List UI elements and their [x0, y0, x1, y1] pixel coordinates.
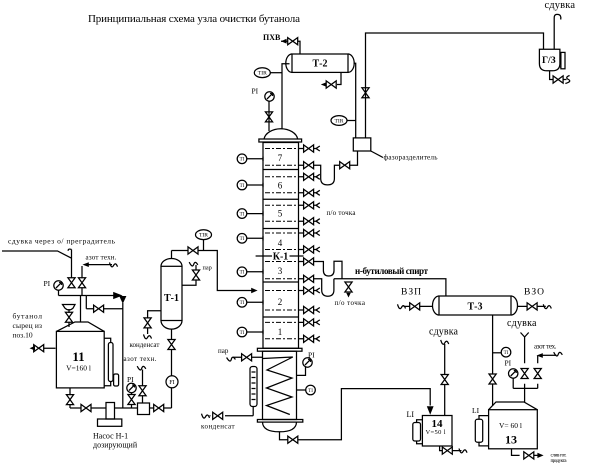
valve G/Z drain — [553, 76, 563, 83]
instrument TI 4 — [237, 234, 247, 244]
valve PXB — [288, 38, 298, 45]
reboiler bottom flange — [257, 420, 302, 423]
heat exchanger T-3 — [439, 296, 511, 315]
wire TI stem — [297, 389, 306, 391]
valve row11 — [304, 287, 314, 294]
svg-text:PI: PI — [505, 359, 512, 368]
breather funnel — [63, 305, 76, 314]
instrument TI 3 — [237, 267, 247, 277]
valve vent14 — [441, 375, 448, 385]
vessel G/Z — [539, 49, 560, 71]
valve row12 — [304, 306, 314, 313]
column K-1 top flange — [259, 139, 302, 142]
level glass 14 — [413, 423, 421, 442]
svg-text:Принципиальная схема узла о: Принципиальная схема узла очистки бутано… — [88, 13, 300, 25]
valve row7 — [304, 229, 314, 236]
valve nitrogen13 — [534, 369, 541, 379]
valve row1 — [304, 145, 314, 152]
vessel 13 body — [489, 410, 538, 449]
valve row2 — [304, 162, 314, 169]
svg-text:2: 2 — [278, 297, 283, 307]
pipe G/Z drain — [550, 71, 567, 80]
instrument PI2 — [127, 383, 136, 392]
level glass vessel 11 — [108, 343, 113, 382]
wire TI stem — [493, 352, 502, 354]
svg-text:сдувка: сдувка — [429, 327, 459, 338]
pipe T-3 outlet — [492, 315, 494, 406]
valve vent13 — [521, 369, 528, 379]
valve breather — [65, 312, 72, 322]
instrument TIR2 — [331, 116, 347, 126]
squiggle steam — [189, 261, 198, 267]
svg-text:бутанол: бутанол — [13, 312, 43, 321]
node K-1 label row — [256, 255, 304, 257]
pipe vent 13 — [521, 333, 529, 403]
squiggle VZP — [398, 304, 406, 308]
pipe T-1 bottom — [171, 329, 173, 408]
column K-1 body — [263, 143, 299, 349]
nozzle ticks — [262, 157, 264, 335]
svg-text:PI: PI — [308, 351, 315, 360]
svg-text:11: 11 — [72, 349, 84, 364]
pipe separator outlet — [350, 151, 358, 165]
wire TIR2 stem — [347, 120, 356, 122]
valve T-1 drain — [144, 318, 151, 328]
instrument TI 1 — [237, 327, 247, 337]
valve bottoms — [288, 436, 298, 443]
pipe T-1 top to column feed — [172, 251, 253, 291]
tray dashed lines — [265, 149, 297, 339]
wire TI stems — [247, 159, 263, 332]
vessel 11 body — [56, 331, 104, 388]
reboiler coil — [263, 357, 293, 415]
squiggle steam2 — [227, 355, 236, 361]
squiggle 14 drain — [459, 449, 467, 453]
svg-text:конденсат: конденсат — [130, 341, 160, 349]
valve PI2 — [128, 395, 135, 405]
valve outlet horizontal — [81, 404, 91, 411]
squiggle nitrogen13 — [554, 351, 563, 357]
pipe PXB inlet — [281, 41, 300, 54]
valve VZO — [527, 303, 537, 310]
valve feed line — [188, 247, 198, 254]
valve row9 — [304, 258, 314, 265]
instrument PI3 — [303, 358, 312, 367]
pipe 13 drain — [512, 449, 539, 456]
pipe upper loop row9 — [318, 261, 343, 279]
valve nitrogen2 — [139, 386, 146, 396]
svg-text:фазоразделитель: фазоразделитель — [384, 154, 439, 162]
svg-text:LI: LI — [407, 410, 415, 419]
valve row13 — [304, 319, 314, 326]
svg-text:сдувка через о/ преградитель: сдувка через о/ преградитель — [8, 237, 116, 246]
valve 14 drain — [442, 447, 452, 454]
wire label leader — [371, 151, 383, 158]
squiggle drain — [144, 334, 152, 338]
svg-text:FI: FI — [169, 379, 175, 386]
bypass loop — [86, 296, 123, 409]
svg-text:LI: LI — [472, 406, 480, 415]
svg-text:азот техн.: азот техн. — [86, 254, 117, 262]
instrument PI gauge vessel11 — [54, 281, 63, 290]
pipe nitrogen down — [81, 266, 83, 296]
svg-text:4: 4 — [278, 238, 283, 248]
heat exchanger T-2 — [292, 54, 348, 72]
svg-text:PI: PI — [127, 375, 134, 384]
pipe vapor line to T-2 — [282, 64, 290, 129]
svg-text:сдувка: сдувка — [545, 0, 576, 11]
filter box — [138, 403, 150, 415]
valve row14 — [304, 335, 314, 342]
column bottom head — [263, 422, 297, 432]
pipe T-2 drain — [337, 72, 341, 84]
svg-text:ПХВ: ПХВ — [263, 33, 281, 42]
svg-text:азот техн.: азот техн. — [124, 355, 157, 363]
column K-1 dome — [264, 129, 298, 139]
pipe VZP — [404, 305, 433, 307]
wire TIR3 stem — [203, 240, 205, 251]
svg-text:н-бутиловый спирт: н-бутиловый спирт — [355, 266, 429, 276]
pipe product line — [334, 279, 446, 296]
svg-text:п/о точка: п/о точка — [335, 299, 366, 307]
squiggle nitrogen2 — [137, 365, 146, 371]
svg-text:Т-1: Т-1 — [164, 293, 179, 304]
valve row6 — [304, 218, 314, 225]
valve row8 — [304, 246, 314, 253]
valve steam — [192, 270, 199, 280]
instrument FI — [166, 376, 178, 388]
sample valve rows stubs and tails — [299, 149, 318, 339]
svg-text:азот тех.: азот тех. — [534, 343, 557, 351]
sample row open arrows — [316, 146, 320, 151]
squiggle nitrogen — [110, 263, 118, 267]
level gauge reboiler — [250, 367, 257, 407]
pipe lower U-seal row10 — [318, 279, 334, 296]
svg-text:дозирующий: дозирующий — [93, 441, 138, 450]
valve PI line — [265, 112, 272, 122]
pipe vent line to header — [366, 33, 544, 138]
svg-text:пар: пар — [218, 347, 229, 355]
pipe supply drop — [80, 296, 82, 323]
pipe reflux U-seal — [318, 165, 340, 185]
svg-text:Г/З: Г/З — [542, 56, 556, 66]
valve nitrogen — [78, 278, 85, 288]
squiggle condensate — [202, 414, 210, 418]
pipe steam — [182, 265, 196, 285]
valve T-3 outlet — [489, 374, 496, 384]
valve T-1 bottom — [168, 340, 175, 350]
svg-text:поз.10: поз.10 — [13, 331, 33, 340]
instrument TI reboiler — [306, 385, 316, 395]
header into vessel 13 — [513, 387, 538, 389]
squiggle drain end — [565, 76, 569, 84]
instrument TI 6 — [237, 180, 247, 190]
instrument PI gauge — [265, 92, 274, 101]
valve vent line — [362, 88, 369, 98]
valve row5 — [304, 202, 314, 209]
svg-text:13: 13 — [505, 433, 517, 447]
pump N-1 — [106, 403, 115, 420]
svg-text:PI: PI — [252, 87, 259, 96]
arrow down — [119, 296, 126, 304]
svg-text:V= 60 l: V= 60 l — [499, 421, 522, 430]
svg-text:сырец из: сырец из — [13, 321, 43, 330]
svg-text:Т-2: Т-2 — [313, 59, 328, 70]
pipe PI stem — [268, 101, 270, 131]
pipe vent14 — [444, 344, 446, 416]
level glass 13 — [475, 419, 482, 442]
pipe PI2 stem — [131, 393, 133, 408]
svg-text:п/о точка: п/о точка — [327, 209, 357, 217]
feed arrowhead — [251, 288, 257, 293]
valve row4 — [304, 189, 314, 196]
instrument TI 2 — [237, 298, 247, 308]
valve sample point — [345, 282, 352, 292]
instrument TI 13 — [501, 347, 511, 357]
wire PI3 stem — [297, 367, 306, 376]
svg-text:Насос Н-1: Насос Н-1 — [93, 432, 128, 441]
pipe bottoms to vessel 14 — [280, 389, 431, 440]
instrument TI 7 — [237, 154, 247, 164]
pipe VZO — [517, 305, 546, 307]
squiggle vent14 — [441, 340, 449, 344]
tray boundary lines — [263, 170, 299, 318]
pipe T-1 condensate drain — [148, 311, 161, 334]
svg-text:V=50 l: V=50 l — [426, 429, 446, 436]
pipe T-2 outlet to separator — [354, 63, 356, 138]
svg-text:PI: PI — [44, 279, 51, 288]
valve steam2 — [242, 354, 252, 361]
svg-text:конденсат: конденсат — [201, 423, 235, 431]
svg-text:6: 6 — [278, 181, 283, 191]
valve 13 drain — [524, 452, 534, 459]
valve condensate — [213, 412, 223, 419]
manifold over vessel 11 — [59, 290, 87, 295]
svg-text:7: 7 — [278, 153, 283, 163]
instrument TIR3 — [196, 230, 212, 240]
condensate line — [210, 407, 254, 416]
pipe inlet — [34, 347, 56, 349]
valve outlet vertical — [66, 395, 73, 405]
svg-text:сдувка: сдувка — [507, 318, 537, 329]
pipe nitrogen13 down — [537, 356, 539, 389]
reboiler shell — [263, 351, 297, 419]
column bottom flange — [257, 348, 302, 351]
pipe steam to reboiler — [233, 356, 263, 358]
valve discharge — [154, 404, 164, 411]
wire PI4 stem — [512, 378, 514, 388]
squiggle VZO — [543, 304, 551, 308]
valve VZP — [410, 303, 420, 310]
instrument TI 5 — [237, 209, 247, 219]
svg-text:V=160 l: V=160 l — [66, 363, 91, 372]
valve T-2 drain — [326, 81, 336, 88]
instrument PI4 — [509, 369, 518, 378]
valve vent — [68, 278, 75, 288]
level glass G/Z — [561, 52, 565, 68]
pipe vent to flame arrester — [2, 250, 72, 278]
valve inlet — [34, 345, 44, 352]
wire TIR stem — [270, 72, 282, 74]
svg-text:1: 1 — [278, 327, 283, 337]
valve row3 — [304, 173, 314, 180]
phase separator box — [353, 138, 371, 151]
valve reflux — [340, 162, 350, 169]
vessel 13 top trapezoid — [489, 402, 538, 410]
valve row10 — [304, 275, 314, 282]
svg-text:ВЗП: ВЗП — [401, 288, 421, 298]
pipe nitrogen2 — [142, 370, 144, 404]
pipe vessel 11 outlet — [70, 388, 106, 408]
instrument TIR — [254, 68, 270, 78]
svg-text:пар: пар — [203, 265, 212, 272]
pipe pump discharge — [115, 407, 172, 409]
arrow right — [113, 292, 122, 299]
svg-text:3: 3 — [278, 266, 283, 276]
svg-text:ВЗО: ВЗО — [524, 288, 544, 298]
pipe 14 drain — [440, 446, 462, 451]
svg-text:Т-3: Т-3 — [468, 302, 483, 313]
valve bypass — [94, 305, 104, 312]
svg-text:продукта: продукта — [551, 458, 568, 463]
vessel 11 top trapezoid — [56, 322, 104, 331]
svg-text:5: 5 — [278, 209, 283, 219]
pipe vent with hook — [554, 14, 561, 49]
vessel 14 — [422, 416, 452, 447]
vessel T-1 — [161, 266, 182, 320]
